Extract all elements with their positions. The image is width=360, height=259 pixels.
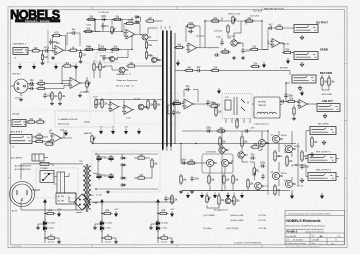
wire return down — [286, 83, 290, 98]
svg-text:+VC 15B: +VC 15B — [258, 215, 266, 217]
jack J8 rec — [310, 127, 336, 135]
svg-text:(-15v/Sim): (-15v/Sim) — [203, 228, 212, 230]
svg-text:100n: 100n — [288, 95, 294, 97]
connector ACC J11 — [32, 154, 48, 161]
svg-text:J1: J1 — [14, 58, 16, 60]
jack J10 spk2 — [308, 173, 336, 181]
svg-text:100n: 100n — [29, 85, 35, 87]
wire R19 to bus — [156, 20, 163, 22]
capacitor C8 47n — [101, 23, 104, 29]
ground J8 — [310, 152, 314, 157]
power arrow C1 — [186, 193, 189, 199]
svg-text:100n: 100n — [260, 163, 266, 165]
svg-text:MASTER SECTION: MASTER SECTION — [264, 7, 284, 10]
ground comp FET — [232, 56, 236, 60]
power bus bar +48V — [170, 31, 172, 147]
diode D3 1N5402 — [120, 177, 126, 180]
svg-text:REV RET: REV RET — [280, 68, 289, 70]
resistor R77 10k — [241, 135, 243, 148]
wire clip rails v — [96, 100, 124, 108]
resistor R83 reg 3 low — [159, 237, 170, 239]
svg-text:1k: 1k — [257, 171, 259, 173]
resistor R4 1k — [68, 49, 79, 51]
connector AC inlet — [10, 182, 35, 207]
power arrow reg 1 — [57, 211, 60, 217]
wire send jack link — [292, 52, 294, 54]
svg-text:100n: 100n — [47, 95, 53, 97]
svg-text:AUX LEVEL: AUX LEVEL — [322, 93, 332, 96]
svg-text:C2 100u: C2 100u — [105, 223, 112, 225]
svg-text:100n: 100n — [206, 128, 212, 130]
resistor R73 100R — [208, 174, 210, 185]
diode D2 1N5402 — [120, 164, 126, 167]
svg-text:CHANNEL 1...4: CHANNEL 1...4 — [116, 73, 131, 76]
svg-text:BC: BC — [214, 163, 218, 165]
svg-text:QV Bxx to GND: QV Bxx to GND — [230, 219, 244, 222]
resistor R40 6k8 — [93, 62, 95, 72]
ground output jack — [300, 35, 304, 40]
svg-text:100n: 100n — [176, 112, 182, 114]
ground reg 3 left — [149, 226, 153, 230]
diode D6 1N4148 — [134, 21, 140, 24]
wire level down — [261, 21, 263, 50]
resistor R87 — [233, 195, 235, 206]
reg cell 3 feed wire — [157, 209, 159, 243]
wire Q1 emitter to bus — [148, 40, 158, 42]
op-amp U3B send — [270, 39, 282, 48]
svg-text:100n: 100n — [181, 160, 187, 162]
power arrow B3 +48V — [124, 129, 127, 135]
jack J6 line output — [317, 104, 340, 112]
resistor R92 reg 2 — [102, 212, 113, 214]
psu filter dashed box — [92, 151, 160, 192]
svg-text:100n: 100n — [194, 178, 200, 180]
wire phantom Q5 — [104, 66, 119, 70]
svg-text:Bias Adjustment:: Bias Adjustment: — [214, 208, 229, 211]
wire spk feed — [306, 159, 308, 177]
svg-text:1: 1 — [50, 246, 51, 248]
resistor R44 100k — [101, 98, 103, 109]
resistor R46 4k7 — [154, 99, 156, 110]
node N3 — [131, 35, 132, 36]
wire aux rc chain — [208, 104, 220, 108]
svg-text:BC: BC — [280, 176, 284, 178]
wire output node — [292, 164, 306, 166]
svg-text:-15: -15 — [112, 127, 115, 129]
node tone j3 — [131, 49, 132, 50]
resistor R82 0R22 — [274, 184, 276, 196]
node N2 — [80, 50, 81, 51]
wire R1 to C1 — [41, 50, 46, 52]
capacitor C30 4700u — [96, 155, 101, 161]
separator mic/line dotted — [11, 109, 89, 111]
resistor R95 47k — [227, 24, 229, 34]
wire reg 1 gnd stub — [38, 224, 45, 226]
svg-text:1 of 4: 1 of 4 — [126, 118, 131, 120]
svg-text:Vact 300u: Vact 300u — [196, 35, 204, 38]
power bus bar +15V — [162, 31, 164, 150]
resistor R52 22k — [209, 105, 220, 107]
power arrow reg 3 top2 — [156, 199, 159, 205]
wire C1 to opamp U1 — [50, 50, 56, 52]
wire bass rail — [86, 49, 132, 51]
transistor Q15 drv2 — [255, 183, 262, 190]
ground U1 minus input — [51, 56, 55, 60]
node line fb junction — [52, 50, 53, 51]
jack J7 phones — [10, 135, 32, 144]
potentiometer P1 mid — [111, 26, 116, 35]
capacitor C2 22p — [49, 39, 52, 45]
wire comp extra — [222, 34, 231, 40]
power arrow C2 — [200, 193, 203, 199]
wire diff pair bases — [203, 160, 232, 163]
resistor R65 — [136, 157, 147, 159]
ground jack J5 — [298, 86, 302, 91]
svg-text:+VC 15B: +VC 15B — [258, 220, 266, 222]
svg-text:+48: +48 — [124, 127, 127, 129]
wire J1 to R1 — [28, 50, 33, 52]
wire module boundary left solid — [47, 30, 49, 63]
svg-text:QM Bxx to GND: QM Bxx to GND — [230, 214, 244, 217]
wire outstage top feeds — [279, 131, 292, 146]
svg-text:Q7: Q7 — [271, 135, 273, 137]
wire mains L — [34, 173, 57, 190]
wire rec jack feed — [306, 131, 310, 153]
power arrow mid right — [176, 60, 179, 66]
resistor R50 10k — [250, 65, 261, 67]
ground J8b — [322, 140, 326, 145]
resistor R36 — [35, 121, 46, 123]
resistor R55b 22k — [210, 69, 221, 71]
diode D13 led 3 — [156, 220, 160, 233]
wire comp to out node — [260, 49, 269, 51]
resistor R45 4k7 — [147, 99, 149, 110]
resistor R81 0R22 — [286, 155, 288, 167]
capacitor C7 — [101, 18, 107, 21]
power arrow reg 2 — [114, 211, 117, 217]
transistor Q16 BD249 — [272, 135, 279, 142]
switch S1 power — [40, 171, 54, 183]
resistor R61 — [34, 140, 45, 142]
svg-text:LEVEL 4x 10k: LEVEL 4x 10k — [228, 14, 240, 16]
svg-text:1 CHANNEL MODULE: 1 CHANNEL MODULE — [58, 118, 78, 121]
svg-text:Q10: Q10 — [284, 180, 287, 182]
power arrow rail A4 — [74, 64, 77, 70]
power arrow phones — [64, 130, 67, 136]
capacitor C40 — [206, 129, 212, 132]
power arrow rail A1 — [18, 64, 21, 70]
capacitor C45 100n — [300, 164, 303, 170]
capacitor C20 47p — [185, 88, 191, 91]
trimmer P5 bias adj — [253, 166, 258, 177]
op-amp U7 line out — [297, 100, 309, 109]
svg-text:4x BC546: 4x BC546 — [214, 31, 222, 33]
resistor R70 — [216, 130, 227, 132]
svg-text:(+)VF C2L(1B): (+)VF C2L(1B) — [226, 228, 239, 230]
svg-text:SEND: SEND — [320, 47, 328, 51]
resistor R58 100R — [286, 100, 297, 102]
resistor R62 — [44, 143, 55, 145]
resistor R24 1k — [220, 51, 231, 53]
node comp rail a — [204, 20, 205, 21]
svg-text:TANK 8R: TANK 8R — [258, 104, 266, 107]
svg-text:C13 4u/63v: C13 4u/63v — [250, 16, 259, 18]
wire mic cold — [28, 88, 31, 90]
title block frame — [285, 210, 345, 245]
svg-text:L Springs 4R 4.7u: L Springs 4R 4.7u — [254, 123, 269, 126]
resistor R35 — [26, 121, 37, 123]
wire comp out — [199, 47, 211, 49]
svg-text:BD24x: BD24x — [281, 135, 287, 137]
capacitor C17 100n — [172, 101, 175, 107]
wire tone vertical v1 — [94, 20, 96, 32]
power arrow reg 1 top2 — [43, 199, 46, 205]
power arrow B2 -15V — [111, 129, 114, 135]
wire fuse run — [54, 173, 69, 176]
svg-text:Size: Size — [312, 236, 315, 238]
resistor R51 10k — [172, 102, 183, 104]
power bus bar -15V — [166, 31, 168, 147]
power arrow C5 — [240, 193, 243, 199]
svg-text:MASTER: MASTER — [84, 132, 93, 135]
svg-text:Doc 105.233: Doc 105.233 — [286, 236, 296, 238]
svg-text:1.0: 1.0 — [338, 236, 341, 238]
resistor R18 47k — [145, 50, 147, 60]
svg-text:ACC INPUT: ACC INPUT — [11, 157, 23, 160]
svg-text:SPK OUTPUT 1: SPK OUTPUT 1 — [316, 152, 332, 154]
master signal rail — [93, 143, 296, 145]
jack J5 return — [292, 75, 316, 83]
resistor R88 56k — [236, 118, 238, 129]
svg-text:2x BC556B: 2x BC556B — [206, 152, 216, 154]
svg-text:BC: BC — [293, 184, 297, 186]
svg-text:100n: 100n — [245, 50, 251, 52]
ground C42 — [190, 190, 194, 194]
power arrow send — [286, 58, 289, 64]
ground comp C11 — [241, 56, 245, 60]
svg-text:BD25x: BD25x — [281, 173, 287, 175]
svg-text:3: 3 — [219, 246, 220, 248]
wire diff tails — [210, 167, 233, 191]
wire c48 link — [77, 33, 81, 46]
node reg 2 mid — [101, 223, 102, 224]
wire to output jack — [285, 27, 295, 29]
svg-text:BC: BC — [115, 59, 119, 61]
resistor R86 — [218, 194, 220, 206]
capacitor C33 4700u — [108, 173, 113, 179]
resistor R12 10k — [83, 30, 94, 32]
ground zobel — [300, 178, 304, 183]
node psu j1 — [95, 153, 96, 154]
wire mic feedback — [62, 66, 76, 81]
resistor R93 reg 3 — [158, 212, 169, 214]
svg-text:AUX (PH) S: AUX (PH) S — [11, 131, 23, 134]
resistor R3 4.7k — [51, 34, 62, 36]
svg-text:10u 25v: 10u 25v — [105, 242, 111, 244]
connector XLR1 mic input — [11, 79, 29, 96]
svg-text:LINE INPUT 1: LINE INPUT 1 — [13, 44, 27, 46]
svg-text:(+)VT LIN/NR: (+)VT LIN/NR — [203, 215, 215, 217]
potentiometer P2 level — [232, 16, 237, 25]
capacitor C42 47u — [190, 176, 193, 182]
wire tone top rail — [88, 19, 132, 21]
svg-text:Treble: Treble — [86, 24, 91, 27]
power arrow B4 gnd — [137, 129, 140, 135]
capacitor C11 4u7 — [241, 48, 244, 54]
svg-text:LINE OUT: LINE OUT — [322, 101, 333, 103]
node psu j2 — [95, 188, 96, 189]
svg-text:10u 25v: 10u 25v — [161, 242, 167, 244]
wire to mic amp - — [47, 85, 71, 88]
wire mute link — [117, 50, 128, 58]
node amp tap — [180, 143, 181, 144]
capacitor C41 2u2 — [181, 161, 187, 164]
svg-text:BC: BC — [245, 155, 249, 157]
transistor Q14 drv — [259, 140, 266, 147]
svg-text:CH (4x): CH (4x) — [12, 114, 19, 116]
resistor R72 22k — [219, 136, 221, 147]
node N4 — [261, 20, 262, 21]
wire clip to bus — [155, 100, 163, 111]
diode D1 1N5402 — [120, 157, 126, 160]
clip module boundary — [90, 94, 178, 125]
svg-text:C 100n: C 100n — [105, 228, 111, 230]
wire EQ feedback — [124, 24, 140, 37]
svg-text:C 100n: C 100n — [48, 228, 54, 230]
node reg 3 bottom — [157, 237, 158, 238]
node reg 3 mid — [157, 223, 158, 224]
resistor R5 10k — [79, 51, 81, 60]
svg-text:0R22: 0R22 — [278, 156, 283, 158]
wire mid rail — [84, 31, 122, 33]
power bus bar ground — [174, 33, 176, 144]
wire psu internal v — [122, 154, 152, 178]
capacitor C32 4700u — [108, 155, 113, 161]
svg-text:47R: 47R — [105, 211, 110, 213]
wire mic module join — [26, 121, 90, 123]
resistor R30 6k8 — [36, 82, 47, 84]
capacitor C34 — [164, 196, 167, 202]
capacitor C1 470n — [44, 49, 50, 52]
svg-text:AC IN: AC IN — [12, 210, 18, 213]
power arrow relay — [217, 88, 220, 94]
power arrow reg 3 — [170, 211, 173, 217]
svg-text:C3 100u: C3 100u — [161, 223, 168, 225]
wire reg 1 bottom link — [45, 238, 59, 240]
amp input wire — [181, 144, 203, 164]
ground send jack — [300, 62, 304, 67]
node tone j1 — [94, 19, 95, 20]
wire R89 tap — [293, 105, 295, 107]
resistor R55 10k — [184, 69, 195, 71]
jack J4 line input 2 — [12, 120, 26, 127]
ground jack J6 — [323, 114, 327, 119]
resistor R11 10k — [112, 18, 123, 20]
resistor R67 — [151, 158, 153, 169]
wire reg rail — [96, 201, 175, 203]
resistor R14 4k7 — [145, 40, 147, 50]
svg-text:2: 2 — [134, 246, 135, 248]
mic module dotted top — [11, 62, 89, 64]
NOBELS logo — [10, 7, 60, 23]
node speaker out — [295, 164, 296, 165]
wire outstage right rail — [297, 143, 299, 186]
resistor R78 — [250, 146, 261, 148]
resistor R27 1k — [282, 51, 293, 53]
svg-text:SPK OUTPUT 2: SPK OUTPUT 2 — [316, 170, 332, 172]
reg cell 1 feed wire — [44, 209, 46, 243]
wire U1 output — [66, 49, 71, 51]
wire tone vertical v2 — [121, 20, 123, 32]
svg-text:of 1: of 1 — [331, 243, 334, 245]
svg-text:47R: 47R — [48, 211, 53, 213]
resistor R53 10k — [215, 106, 217, 117]
node reg 1 top — [44, 213, 45, 214]
capacitor C22 100n — [284, 93, 287, 99]
capacitor C14 10u — [29, 82, 35, 85]
resistor R91 reg 1 — [45, 212, 56, 214]
svg-text:AC POWER 115V~: AC POWER 115V~ — [15, 168, 32, 171]
capacitor C47 100n — [244, 129, 250, 132]
node tone j2 — [121, 31, 122, 32]
resistor R74 100R — [223, 174, 225, 185]
wire tone link t1 — [95, 20, 100, 32]
power arrow U7 — [300, 90, 303, 96]
node reg 1 bottom — [44, 237, 45, 238]
wire clip out — [144, 106, 148, 108]
wire aux opamp in — [170, 103, 184, 105]
transistor Q1 BC550 — [142, 34, 148, 40]
wire bias chain — [248, 162, 258, 191]
ground below R89 — [292, 117, 296, 121]
wire aux return junctions — [322, 75, 329, 90]
resistor R2 100k — [41, 53, 43, 62]
capacitor C16 100p — [43, 93, 46, 99]
svg-text:CLIP: CLIP — [93, 97, 98, 99]
transistor Q10 BC556 — [206, 159, 213, 166]
resistor R41 6k8 — [99, 62, 101, 72]
wire phantom feeds — [94, 60, 100, 78]
resistor R81 reg 1 low — [46, 237, 57, 239]
fuse F1 — [38, 162, 52, 165]
power arrow rail A3 — [54, 64, 57, 70]
resistor R10 10k — [86, 18, 97, 20]
resistor R23 10k — [174, 46, 185, 48]
diode D11 led 1 — [43, 220, 47, 233]
svg-text:Bass: Bass — [86, 46, 90, 48]
transistor Q20 — [225, 198, 231, 204]
wire bass to eq vertical — [131, 36, 133, 50]
wire reg 3 bottom link — [158, 238, 172, 240]
resistor R57 47k — [328, 76, 330, 87]
resistor R79 — [247, 178, 249, 189]
op-amp U4 mic preamp — [68, 78, 82, 89]
wire aux fb — [184, 90, 198, 103]
channel module boundary — [48, 11, 158, 64]
wire comp fet gate — [234, 21, 241, 40]
svg-text:47R: 47R — [161, 211, 166, 213]
svg-text:Q9: Q9 — [284, 145, 286, 147]
svg-text:BC: BC — [125, 70, 129, 72]
wire reg 2 gnd stub — [95, 224, 102, 226]
capacitor C25 — [280, 100, 286, 103]
resistor R22 100k — [186, 25, 197, 27]
svg-text:AC 15V: AC 15V — [58, 195, 65, 198]
ground psu centre — [106, 190, 110, 194]
potentiometer P4 MASTER — [91, 135, 96, 144]
ground reg 2 right — [114, 240, 118, 244]
wire out node to send — [262, 40, 270, 50]
